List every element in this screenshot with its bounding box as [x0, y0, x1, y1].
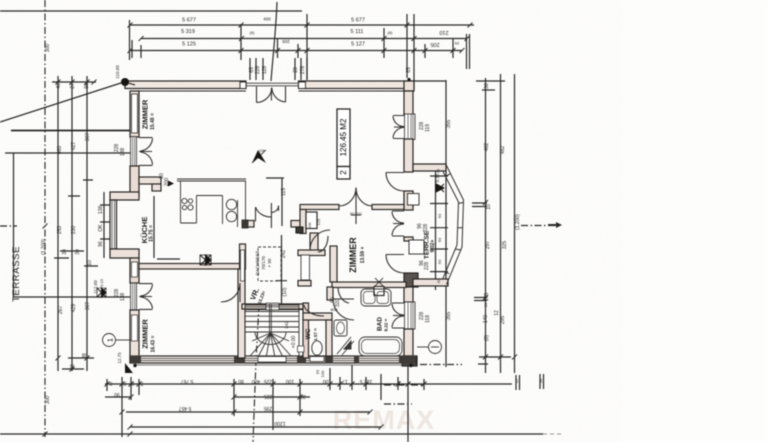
- svg-text:320: 320: [335, 299, 341, 308]
- svg-text:242: 242: [281, 250, 287, 259]
- svg-text:400: 400: [263, 17, 271, 22]
- svg-text:12: 12: [494, 310, 500, 316]
- svg-text:10: 10: [108, 381, 113, 386]
- svg-text:100: 100: [320, 370, 325, 377]
- svg-text:460: 460: [57, 146, 63, 155]
- svg-text:13.59 +: 13.59 +: [360, 247, 366, 264]
- svg-text:(8): (8): [388, 30, 394, 35]
- svg-text:+ 90: + 90: [267, 258, 272, 267]
- svg-text:15.48 =: 15.48 =: [150, 113, 156, 130]
- svg-text:228: 228: [424, 262, 430, 271]
- svg-text:205: 205: [430, 41, 439, 47]
- svg-text:110.60: 110.60: [115, 65, 120, 79]
- svg-text:1200: 1200: [274, 420, 285, 426]
- svg-text:90: 90: [114, 391, 120, 397]
- svg-text:ZIMMER: ZIMMER: [348, 237, 358, 273]
- svg-text:138: 138: [120, 148, 126, 157]
- svg-text:(1.200): (1.200): [41, 239, 47, 255]
- svg-text:210: 210: [439, 29, 448, 35]
- svg-text:OK: OK: [307, 222, 312, 228]
- svg-text:15.75 =: 15.75 =: [149, 225, 155, 242]
- svg-text:17: 17: [342, 378, 348, 384]
- svg-text:OK: OK: [98, 224, 104, 232]
- svg-text:228: 228: [423, 224, 429, 233]
- svg-text:5 677: 5 677: [182, 18, 196, 24]
- svg-text:REMAX: REMAX: [333, 405, 436, 435]
- svg-text:267: 267: [58, 306, 64, 315]
- svg-text:35: 35: [436, 168, 441, 173]
- svg-text:16.43 =: 16.43 =: [151, 336, 157, 353]
- svg-text:10: 10: [486, 204, 492, 210]
- svg-text:5 767: 5 767: [181, 378, 194, 384]
- svg-text:225: 225: [264, 378, 273, 384]
- svg-text:119: 119: [425, 124, 431, 132]
- svg-text:230: 230: [71, 226, 77, 235]
- svg-text:242: 242: [284, 321, 289, 329]
- svg-text:355: 355: [446, 120, 452, 129]
- svg-text:+0.15: +0.15: [99, 278, 104, 289]
- svg-text:50: 50: [437, 237, 442, 242]
- svg-text:27: 27: [70, 83, 76, 89]
- svg-text:126.45 M2: 126.45 M2: [339, 118, 348, 156]
- svg-text:312 5: 312 5: [360, 378, 373, 384]
- svg-text:30: 30: [300, 393, 306, 399]
- svg-text:TERRASSE: TERRASSE: [11, 246, 22, 302]
- svg-text:(1.200): (1.200): [515, 214, 521, 230]
- svg-text:GB: GB: [259, 148, 265, 153]
- svg-text:50: 50: [437, 259, 442, 264]
- svg-text:427: 427: [71, 142, 77, 151]
- svg-text:9.02+: 9.02+: [430, 240, 436, 253]
- svg-text:5 127: 5 127: [351, 42, 365, 48]
- svg-text:205: 205: [282, 39, 290, 44]
- svg-text:38: 38: [70, 364, 76, 370]
- svg-text:70/170: 70/170: [261, 256, 266, 270]
- svg-text:1.57 =: 1.57 =: [313, 328, 318, 341]
- svg-text:30: 30: [62, 249, 68, 255]
- svg-text:BAD: BAD: [377, 317, 384, 331]
- svg-text:50: 50: [437, 185, 442, 190]
- svg-text:115: 115: [281, 188, 287, 196]
- svg-text:50: 50: [437, 213, 442, 218]
- svg-text:36: 36: [484, 83, 490, 89]
- svg-text:38: 38: [538, 378, 543, 383]
- svg-text:482: 482: [500, 146, 506, 155]
- svg-text:100: 100: [286, 378, 295, 384]
- svg-text:5 677: 5 677: [351, 18, 365, 24]
- svg-text:98: 98: [84, 83, 90, 89]
- svg-text:0.35: 0.35: [435, 173, 440, 182]
- svg-text:12.75: 12.75: [117, 352, 122, 364]
- svg-text:80B: 80B: [330, 307, 337, 312]
- svg-text:140: 140: [483, 315, 489, 324]
- svg-text:200: 200: [164, 178, 170, 187]
- svg-text:295: 295: [264, 405, 273, 411]
- svg-text:65: 65: [406, 67, 412, 73]
- svg-text:+0.00: +0.00: [291, 335, 297, 348]
- svg-text:300: 300: [45, 44, 51, 53]
- svg-text:12: 12: [514, 378, 519, 383]
- svg-text:355: 355: [446, 312, 452, 321]
- svg-text:50: 50: [122, 381, 127, 386]
- svg-text:297: 297: [485, 241, 491, 250]
- svg-text:128: 128: [262, 66, 268, 75]
- svg-text:138: 138: [120, 293, 126, 302]
- svg-text:8.22 =: 8.22 =: [384, 318, 389, 331]
- svg-text:30: 30: [130, 381, 135, 386]
- svg-text:96: 96: [98, 241, 104, 247]
- svg-text:ZIMMER: ZIMMER: [141, 99, 150, 129]
- svg-text:5 319: 5 319: [181, 29, 195, 35]
- svg-text:30: 30: [75, 249, 81, 255]
- svg-text:278: 278: [300, 66, 306, 75]
- svg-text:1: 1: [108, 338, 115, 342]
- svg-text:175: 175: [484, 293, 490, 302]
- svg-text:28: 28: [293, 67, 299, 73]
- svg-text:25: 25: [454, 41, 459, 46]
- svg-text:80: 80: [139, 381, 144, 386]
- svg-text:225: 225: [264, 393, 273, 399]
- svg-text:367: 367: [85, 133, 91, 142]
- svg-text:10: 10: [483, 302, 488, 307]
- svg-text:5 111: 5 111: [351, 29, 364, 35]
- svg-text:80: 80: [238, 378, 244, 384]
- svg-text:38: 38: [396, 380, 401, 385]
- svg-text:(10): (10): [282, 287, 288, 296]
- svg-text:228: 228: [255, 66, 261, 75]
- svg-text:10: 10: [87, 260, 93, 266]
- svg-text:125: 125: [316, 218, 321, 225]
- svg-text:ZIMMER: ZIMMER: [141, 319, 150, 349]
- svg-text:90 201: 90 201: [350, 211, 363, 216]
- svg-text:112.60: 112.60: [93, 280, 98, 294]
- svg-text:300: 300: [45, 396, 51, 405]
- svg-text:138: 138: [98, 206, 104, 215]
- svg-text:5 125: 5 125: [182, 42, 196, 48]
- svg-text:(8): (8): [484, 335, 490, 341]
- svg-text:(8): (8): [250, 30, 256, 35]
- svg-text:367: 367: [85, 302, 91, 311]
- svg-text:429: 429: [71, 304, 77, 313]
- svg-text:5 457: 5 457: [179, 405, 192, 411]
- svg-text:482: 482: [484, 143, 490, 152]
- svg-text:400: 400: [252, 378, 261, 384]
- svg-text:38: 38: [82, 353, 88, 359]
- svg-text:253: 253: [57, 226, 63, 235]
- svg-text:2: 2: [339, 170, 348, 175]
- svg-text:118: 118: [425, 315, 431, 323]
- svg-text:325: 325: [502, 241, 508, 250]
- svg-text:WC: WC: [305, 328, 312, 339]
- svg-text:100: 100: [323, 378, 332, 384]
- svg-text:46: 46: [56, 83, 62, 89]
- svg-text:DACHESST: DACHESST: [255, 251, 260, 276]
- svg-text:295: 295: [500, 316, 506, 325]
- svg-text:60: 60: [436, 278, 441, 283]
